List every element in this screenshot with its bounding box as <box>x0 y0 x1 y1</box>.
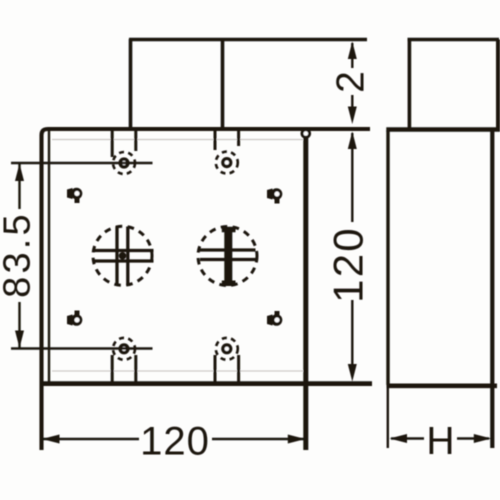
corner screw donut at box top-right <box>301 128 312 139</box>
front view: box outline top edge with rounded top-left corner <box>42 129 371 450</box>
knockout left: center dot <box>119 252 127 260</box>
side view: body left edge with rounded corner <box>386 131 389 386</box>
top hub flange left edge <box>129 39 133 128</box>
top hub flange divider <box>221 39 225 128</box>
dim 2: bottom arrow pointing down <box>348 107 357 125</box>
dim 120 bottom: dimension line segments <box>43 438 304 440</box>
knockout left: double vertical lines <box>117 227 128 286</box>
dim 120 right: dimension line segments <box>351 133 353 370</box>
dim 120 right: bottom arrow pointing down <box>348 364 357 382</box>
dim 120 right: top arrow pointing up <box>348 132 357 150</box>
front view: inner left wall line <box>48 130 50 382</box>
front view: faint inner top line <box>52 139 303 141</box>
screw boss bottom-right: dashed hole circle <box>216 338 238 360</box>
knockout right: dashed circle <box>198 227 257 286</box>
svg-text:2: 2 <box>330 71 373 93</box>
dim 83.5: bottom extension line through bottom-left screw <box>11 347 153 349</box>
top hub flange top edge (with extension for dim 2) <box>129 38 367 41</box>
keyhole mounting hole lower-left <box>67 311 82 326</box>
dim H: left arrow <box>390 434 408 443</box>
side view: body bottom edge <box>387 383 498 388</box>
screw boss bottom-left: side walls <box>112 355 136 382</box>
side view: hub top edge <box>408 38 500 41</box>
dim H: right arrow <box>474 434 492 443</box>
keyhole mounting hole upper-right <box>267 188 282 203</box>
keyhole mounting hole upper-left <box>67 188 82 203</box>
screw boss top-left: side walls <box>112 130 136 157</box>
svg-text:83.5: 83.5 <box>0 211 39 298</box>
dim 2: top arrow pointing up <box>348 42 357 60</box>
keyhole mounting hole lower-right <box>267 311 282 326</box>
screw boss top-left: screw donut <box>118 157 129 168</box>
screw boss bottom-left: dashed hole circle <box>113 338 135 360</box>
screw boss bottom-right: side walls <box>215 355 239 382</box>
dim 83.5: top extension line through top-left screw <box>11 162 153 164</box>
knockout left: double horizontal lines <box>93 251 154 262</box>
knockout right: bar end caps <box>222 230 236 284</box>
dim 83.5: dimension line segments <box>18 163 20 349</box>
screw boss bottom-right: screw donut <box>221 343 232 354</box>
dim H: dimension line segments <box>391 437 489 439</box>
knockout right: double horizontal lines <box>200 250 256 260</box>
svg-text:120: 120 <box>140 420 210 464</box>
side view: body top edge <box>386 127 500 131</box>
svg-text:120: 120 <box>325 226 372 303</box>
side view: hub right edge <box>496 40 500 128</box>
side view: hub left edge <box>408 40 412 128</box>
knockout left: dashed circle <box>93 226 152 285</box>
dim 120 bottom: left arrow <box>42 435 60 444</box>
screw boss bottom-left: screw donut <box>118 343 129 354</box>
knockout right: thick vertical bar <box>224 228 232 285</box>
dim 83.5: bottom arrow <box>15 331 24 349</box>
dim H: left extension line <box>387 387 389 448</box>
dim 83.5: top arrow <box>15 164 24 182</box>
screw boss top-right: dashed hole circle <box>216 152 238 174</box>
svg-text:H: H <box>426 420 454 463</box>
front view: faint inner bottom line <box>52 370 303 372</box>
screw boss top-right: side walls <box>215 130 239 150</box>
dim 2: dimension line segments <box>351 43 353 112</box>
screw boss top-left: dashed hole circle <box>113 152 135 174</box>
front view: box right edge (continues down as extension line) <box>303 129 308 450</box>
front view: box bottom edge <box>40 381 372 386</box>
dim 120 bottom: right arrow <box>288 435 306 444</box>
screw boss top-right: screw donut <box>221 157 232 168</box>
side view: body right edge (continues as extension) <box>490 130 494 448</box>
